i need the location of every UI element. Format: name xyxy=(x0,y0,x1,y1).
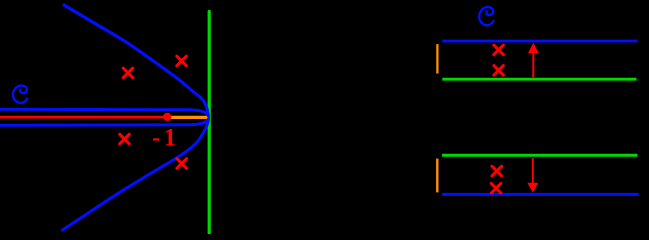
right plot top strip: pole X upper xyxy=(494,45,504,55)
right plot bottom strip: orange tick xyxy=(436,159,438,193)
right plot bottom strip: upper boundary (green line) xyxy=(442,154,637,157)
right plot: script C contour label (blue) xyxy=(479,7,493,25)
right plot bottom strip: pole X lower xyxy=(491,183,501,193)
left plot: pole X upper-left xyxy=(123,68,133,78)
left plot: orange segment from -1 to origin xyxy=(170,116,206,119)
left plot: pole X lower-left xyxy=(120,134,130,144)
left plot: red dot at -1 xyxy=(163,113,171,121)
right plot top strip: lower boundary (green line) xyxy=(442,78,636,81)
right plot bottom strip: lower boundary (blue line) xyxy=(442,193,639,196)
left plot: pole X lower-right xyxy=(177,159,187,169)
left plot: negative real axis branch cut (red line) xyxy=(0,116,164,119)
right plot bottom strip: pole X upper xyxy=(492,166,502,176)
right plot top strip: pole X lower xyxy=(494,66,504,76)
right plot top strip: red up arrow xyxy=(528,43,539,78)
left plot: pole X upper-right xyxy=(177,56,187,66)
right plot top strip: orange tick xyxy=(436,44,438,74)
left plot: collapsed contour lower line (blue) xyxy=(0,119,208,125)
left plot: parabolic contour (blue curve) xyxy=(63,5,209,230)
right plot bottom strip: red down arrow xyxy=(527,158,538,193)
left plot: collapsed contour upper line (blue) xyxy=(0,109,208,116)
right plot top strip: upper boundary (blue line) xyxy=(442,40,637,43)
left plot: imaginary axis (green vertical line) xyxy=(208,12,211,234)
left plot: script C contour label (blue) xyxy=(13,85,27,102)
svg-text:-: - xyxy=(152,125,160,152)
svg-text:1: 1 xyxy=(164,125,177,152)
